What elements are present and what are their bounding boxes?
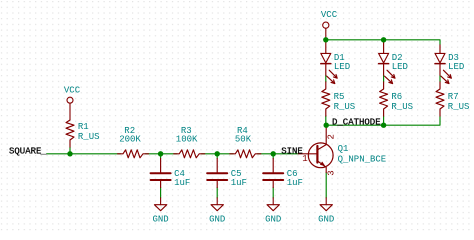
- LED D1: [321, 41, 337, 84]
- wire top rail VCC to D3: [326, 40, 440, 45]
- junction node R6 D_CATHODE: [381, 123, 386, 128]
- wire C5 bottom to GND: [216, 188, 218, 198]
- capacitor C6: [263, 158, 283, 187]
- svg-text:Q1: Q1: [338, 144, 349, 154]
- ground symbol under C6: [267, 198, 279, 211]
- svg-text:GND: GND: [209, 215, 225, 225]
- wire C4 bottom to GND: [160, 188, 162, 198]
- wire C6 bottom to GND: [272, 188, 274, 198]
- svg-text:SINE: SINE: [281, 146, 303, 156]
- wire R6 bottom to D_CATHODE: [383, 116, 385, 125]
- svg-text:R_US: R_US: [448, 102, 470, 112]
- svg-text:R_US: R_US: [78, 132, 100, 142]
- resistor R3: [174, 150, 205, 158]
- ground symbol under Q1 emitter: [320, 198, 332, 211]
- wire R1 bottom to main: [69, 147, 71, 154]
- resistor R7: [436, 82, 444, 116]
- svg-text:R_US: R_US: [334, 102, 356, 112]
- svg-text:50K: 50K: [235, 134, 252, 144]
- svg-text:2: 2: [326, 134, 336, 139]
- svg-text:D_CATHODE: D_CATHODE: [332, 117, 381, 127]
- junction node VCC/D1 top rail: [323, 37, 328, 42]
- wire D1 cathode to R5: [325, 75, 327, 82]
- wire Q1 emitter to GND: [325, 173, 327, 199]
- svg-text:LED: LED: [448, 62, 464, 72]
- svg-text:R_US: R_US: [391, 102, 413, 112]
- power symbol VCC (left): [67, 97, 73, 120]
- svg-text:100K: 100K: [176, 134, 198, 144]
- svg-text:SQUARE: SQUARE: [9, 146, 41, 156]
- wire main horizontal SQUARE to Q1 base: [47, 153, 299, 155]
- junction node C6/SINE: [271, 151, 276, 156]
- resistor R5: [322, 82, 330, 116]
- wire D3 cathode to R7: [439, 75, 441, 82]
- transistor Q1: [298, 125, 333, 172]
- wire C6 top: [272, 154, 274, 159]
- Q1 emitter arrow: [320, 162, 326, 167]
- svg-text:Q_NPN_BCE: Q_NPN_BCE: [338, 154, 387, 164]
- LED D3: [435, 45, 451, 84]
- svg-text:1uF: 1uF: [174, 178, 190, 188]
- svg-text:R5: R5: [334, 92, 345, 102]
- svg-text:GND: GND: [265, 215, 281, 225]
- resistor R1: [66, 120, 74, 147]
- svg-text:R7: R7: [448, 92, 459, 102]
- svg-text:3: 3: [326, 170, 336, 175]
- svg-text:1uF: 1uF: [231, 178, 247, 188]
- capacitor C4: [151, 158, 171, 187]
- power symbol VCC (right): [323, 22, 329, 40]
- wire C5 top: [216, 154, 218, 159]
- svg-text:VCC: VCC: [64, 86, 81, 96]
- svg-text:GND: GND: [318, 215, 334, 225]
- junction node R1/main: [67, 151, 72, 156]
- resistor R2: [118, 150, 149, 158]
- junction node C5/main: [215, 151, 220, 156]
- svg-text:GND: GND: [152, 215, 168, 225]
- junction node C4/main: [158, 151, 163, 156]
- junction node D2 top rail: [381, 37, 386, 42]
- ground symbol under C5: [211, 198, 223, 211]
- wire C4 top: [160, 154, 162, 159]
- wire D_CATHODE rail: [326, 116, 440, 125]
- ground symbol under C4: [154, 198, 166, 211]
- wire label stub after SQUARE: [41, 153, 47, 155]
- svg-text:R1: R1: [78, 122, 89, 132]
- svg-text:LED: LED: [334, 62, 350, 72]
- resistor R6: [380, 82, 388, 116]
- svg-text:R6: R6: [391, 92, 402, 102]
- svg-text:VCC: VCC: [321, 10, 338, 20]
- svg-text:1: 1: [302, 154, 307, 164]
- wire D2 cathode to R6: [383, 75, 385, 82]
- LED D2: [379, 41, 395, 84]
- wire R5 bottom to D_CATHODE: [325, 116, 327, 125]
- capacitor C5: [207, 158, 227, 187]
- svg-text:200K: 200K: [119, 134, 141, 144]
- resistor R4: [230, 150, 261, 158]
- junction node collector/R5 D_CATHODE: [324, 123, 329, 128]
- svg-text:LED: LED: [392, 62, 408, 72]
- svg-text:1uF: 1uF: [287, 178, 303, 188]
